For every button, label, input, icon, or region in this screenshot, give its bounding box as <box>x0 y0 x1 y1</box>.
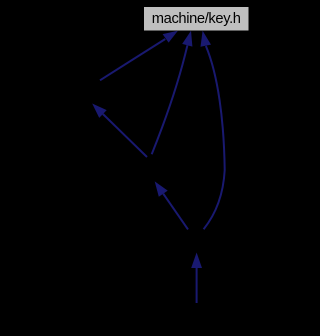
node A (hidden) <box>40 80 102 104</box>
node B (hidden) <box>120 156 182 180</box>
edge C -> machine/key.h <box>201 31 225 229</box>
edge A -> machine/key.h <box>100 31 178 81</box>
edge B -> A <box>92 104 147 158</box>
svg-text:machine/key.h: machine/key.h <box>152 11 241 27</box>
node C (hidden) <box>165 228 227 252</box>
edge D -> C <box>191 253 202 304</box>
edge C -> B <box>155 181 188 229</box>
node machine/key.h <box>144 7 250 32</box>
node D (hidden) <box>165 304 227 328</box>
edge B -> machine/key.h <box>152 31 193 154</box>
